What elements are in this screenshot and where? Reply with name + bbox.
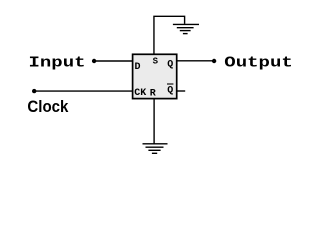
svg-text:Q: Q bbox=[167, 85, 173, 96]
svg-text:S: S bbox=[153, 57, 159, 67]
svg-text:Output: Output bbox=[224, 55, 292, 72]
svg-text:Q: Q bbox=[167, 59, 173, 70]
svg-text:Input: Input bbox=[29, 55, 86, 72]
svg-text:D: D bbox=[135, 62, 141, 73]
svg-text:Clock: Clock bbox=[27, 98, 69, 116]
svg-text:CK: CK bbox=[134, 88, 146, 99]
svg-text:R: R bbox=[150, 88, 156, 99]
